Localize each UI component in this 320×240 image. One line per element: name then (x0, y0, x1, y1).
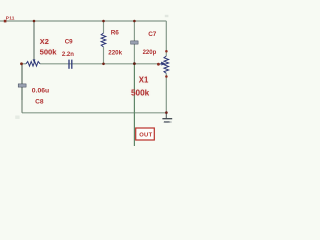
svg-text:500k: 500k (131, 88, 150, 97)
wire X2 wiper drop (33, 21, 35, 60)
node X2 left pin (20, 62, 23, 65)
potentiometer X1 (164, 51, 169, 76)
wire OUT drop (133, 64, 135, 146)
wire mid rail (40, 63, 158, 65)
faint artifact top right (165, 15, 169, 17)
svg-text:220p: 220p (143, 50, 157, 56)
potentiometer X2 (22, 62, 41, 67)
wire left rail (21, 64, 23, 113)
port OUT box (136, 128, 155, 140)
capacitor C8 (18, 64, 26, 100)
svg-text:R6: R6 (111, 29, 120, 36)
svg-text:2.2n: 2.2n (62, 52, 74, 58)
node R6 top (102, 20, 105, 23)
svg-text:0.06u: 0.06u (32, 87, 49, 94)
ground (162, 113, 172, 123)
capacitor C9 (69, 60, 72, 69)
node X1 wiper (157, 63, 160, 66)
node ground junction (165, 111, 168, 114)
node C7 bottom (133, 62, 136, 65)
svg-text:C9: C9 (65, 39, 73, 46)
wire right vertical upper (165, 21, 167, 51)
node R6 bottom (102, 63, 105, 66)
svg-text:AGND: AGND (164, 120, 172, 124)
svg-text:X1: X1 (139, 75, 149, 84)
resistor R6 (101, 21, 106, 64)
X1 wiper arrow (158, 62, 165, 66)
wire top rail (0, 20, 166, 22)
node X1 top pin (165, 50, 168, 53)
svg-text:220k: 220k (108, 49, 122, 56)
svg-text:500k: 500k (40, 47, 58, 56)
X2 wiper arrow (33, 59, 36, 62)
svg-text:C8: C8 (35, 99, 44, 106)
svg-text:P11: P11 (6, 15, 15, 21)
node X2 wiper top (33, 20, 36, 23)
svg-text:C7: C7 (148, 31, 157, 38)
node X1 bottom pin (165, 75, 168, 78)
svg-text:X2: X2 (40, 37, 49, 46)
node P1 pin (4, 20, 7, 23)
capacitor C7 (131, 21, 139, 64)
wire bottom rail (22, 112, 166, 114)
wire X1 bottom to bottom rail (165, 77, 167, 113)
node C7 top (133, 20, 136, 23)
svg-text:OUT: OUT (139, 133, 152, 139)
soft halos (jpeg-like) (40, 37, 150, 97)
faint artifact bottom left (15, 116, 19, 119)
